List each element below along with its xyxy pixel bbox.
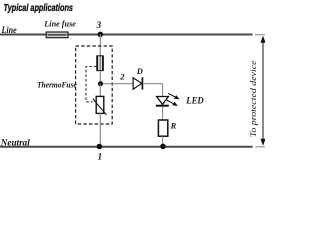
- svg-text:Line fuse: Line fuse: [43, 18, 76, 28]
- svg-text:ThermoFuse: ThermoFuse: [37, 80, 77, 90]
- wire: thermal element down to Neutral: [99, 113, 101, 146]
- wire: Neutral thin stub at right edge: [256, 146, 265, 148]
- LED: [156, 97, 169, 106]
- wire: diode to corner and down to LED: [143, 84, 162, 97]
- svg-text:2: 2: [119, 71, 125, 81]
- node 3 junction dot: [98, 32, 104, 38]
- diode D: [133, 77, 142, 89]
- svg-text:LED: LED: [185, 97, 204, 107]
- svg-text:Neutral: Neutral: [0, 139, 30, 149]
- svg-text:3: 3: [96, 20, 102, 30]
- svg-text:Typical applications: Typical applications: [4, 3, 74, 14]
- dashed box: ThermoFuse enclosure: [76, 46, 113, 124]
- wire: resistor to Neutral: [162, 136, 164, 146]
- svg-text:To protected device: To protected device: [249, 60, 258, 137]
- node junction dot below R: [160, 144, 166, 150]
- LED emission arrow 1: [168, 93, 179, 99]
- wire: node 2 down to thermal element: [99, 84, 101, 97]
- resistor R: [158, 120, 167, 136]
- wire: vertical from node 3 down to node 2: [99, 35, 101, 84]
- svg-text:D: D: [136, 67, 143, 76]
- svg-text:Line: Line: [1, 26, 17, 36]
- wire: LED to resistor R: [162, 107, 164, 121]
- node 2 junction dot: [98, 81, 103, 86]
- wire: node 2 to diode D: [103, 83, 133, 85]
- wire: Line (top horizontal): [0, 34, 253, 36]
- dimension arrow line: To protected device: [260, 36, 265, 146]
- fuse F1: Line fuse body: [46, 32, 68, 38]
- wire: Line thin stub at right edge: [255, 34, 265, 36]
- node 1 junction dot: [97, 144, 103, 150]
- thermal element (rect with diagonal striker): [93, 96, 107, 114]
- LED emission arrow 2: [166, 100, 177, 106]
- fuse element (vertical) inside ThermoFuse: [97, 56, 103, 71]
- wire: Neutral (bottom horizontal): [0, 146, 253, 148]
- thermal coupling dashed link: [86, 67, 97, 102]
- svg-text:R: R: [170, 121, 177, 130]
- svg-text:1: 1: [98, 151, 103, 161]
